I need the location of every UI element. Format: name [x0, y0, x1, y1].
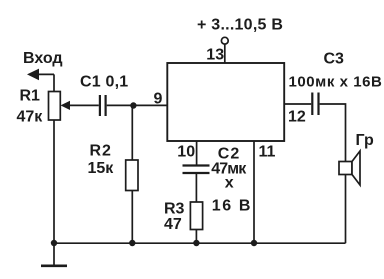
junction pin 11 / ground bus — [251, 240, 257, 246]
power terminal circle — [221, 37, 228, 44]
label R3 47 — [164, 201, 185, 234]
wire R1 bottom to ground bus — [53, 120, 55, 243]
wire pin 10 to C2 — [196, 141, 198, 166]
ground — [41, 243, 67, 266]
junction node A (C1 / R2 / pin 9) — [130, 102, 136, 108]
speaker Гр — [339, 151, 360, 185]
potentiometer R1 — [49, 92, 71, 121]
wire pin 13 to power terminal — [224, 44, 226, 63]
wire C2 to R3 — [195, 174, 197, 203]
wire speaker to ground bus — [345, 175, 347, 244]
svg-text:C3: C3 — [324, 51, 345, 68]
junction R3 / ground bus — [193, 240, 199, 246]
svg-text:+ 3...10,5 В: + 3...10,5 В — [197, 17, 283, 34]
svg-text:13: 13 — [206, 47, 224, 64]
svg-text:Гр: Гр — [356, 132, 374, 149]
svg-text:11: 11 — [259, 143, 276, 160]
wire pin 11 to ground bus — [253, 141, 255, 243]
svg-text:C1 0,1: C1 0,1 — [80, 74, 128, 91]
wire pin 12 to C3 — [284, 103, 311, 105]
resistor R2 — [126, 160, 138, 191]
junction R1 / ground bus — [51, 240, 57, 246]
svg-text:R2: R2 — [90, 143, 112, 160]
svg-text:R3: R3 — [164, 201, 185, 218]
svg-text:15к: 15к — [88, 160, 115, 177]
svg-text:x: x — [225, 175, 234, 192]
wire junction to R2 — [131, 105, 133, 160]
capacitor C2 — [183, 166, 210, 174]
label R2 15к — [88, 143, 115, 178]
wire R2 to ground bus — [131, 191, 133, 244]
wire C3 to speaker — [320, 104, 346, 162]
input arrow — [27, 69, 54, 92]
capacitor C3 — [312, 93, 318, 116]
resistor R3 — [190, 202, 202, 230]
svg-text:Вход: Вход — [23, 50, 63, 67]
svg-text:10: 10 — [177, 143, 195, 160]
svg-text:100мк x 16В: 100мк x 16В — [289, 74, 383, 91]
wire R3 to ground bus — [195, 230, 197, 244]
svg-text:R1: R1 — [20, 88, 41, 105]
svg-text:47к: 47к — [17, 109, 44, 126]
svg-text:12: 12 — [288, 109, 306, 126]
svg-text:47: 47 — [164, 216, 182, 233]
ground bus wire — [54, 242, 346, 244]
wire wiper to C1 — [68, 104, 99, 106]
svg-text:9: 9 — [154, 91, 163, 108]
junction R2 / ground bus — [129, 240, 135, 246]
op-amp IC U1 body — [167, 63, 284, 141]
label C2 47мк x 16 В — [211, 145, 252, 214]
wire C1 to pin 9 — [107, 104, 168, 106]
svg-text:16 В: 16 В — [212, 198, 252, 215]
capacitor C1 — [100, 95, 106, 116]
label R1 47к — [17, 88, 44, 126]
